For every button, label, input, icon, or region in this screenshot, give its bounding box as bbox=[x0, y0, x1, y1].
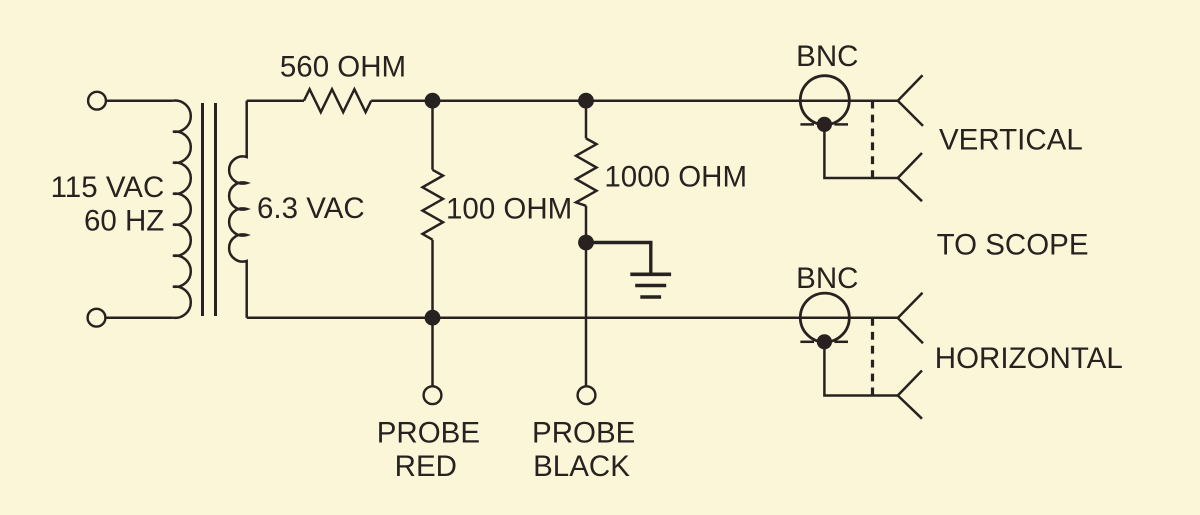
terminal circle primary top bbox=[88, 92, 106, 110]
wire BNC J2 shield drop bbox=[824, 342, 897, 396]
BNC J2 shield tick right bbox=[834, 341, 848, 344]
transformer core line right bbox=[214, 103, 217, 316]
wire 1000 ohm top lead bbox=[585, 101, 588, 139]
terminal circle primary bottom bbox=[88, 309, 106, 327]
ground symbol bbox=[630, 274, 671, 297]
connector V center J1 bbox=[898, 75, 923, 126]
BNC J2 center pin dot bbox=[817, 334, 832, 349]
svg-text:115 VAC: 115 VAC bbox=[51, 171, 165, 204]
svg-text:60 HZ: 60 HZ bbox=[84, 204, 164, 237]
svg-text:6.3 VAC: 6.3 VAC bbox=[257, 192, 365, 225]
connector V shield J1 bbox=[898, 153, 922, 201]
svg-text:RED: RED bbox=[395, 450, 457, 483]
svg-text:BNC: BNC bbox=[796, 40, 858, 73]
BNC J1 shield tick left bbox=[800, 123, 814, 126]
svg-text:PROBE: PROBE bbox=[377, 416, 480, 449]
dashed coax line J1 bbox=[871, 101, 874, 178]
BNC J1 connector circle bbox=[800, 76, 849, 125]
transformer core line left bbox=[201, 103, 204, 316]
svg-text:560 OHM: 560 OHM bbox=[280, 50, 406, 83]
BNC J1 shield tick right bbox=[834, 123, 848, 126]
wire 100 ohm bottom lead to probe red bbox=[431, 240, 434, 386]
svg-text:HORIZONTAL: HORIZONTAL bbox=[935, 342, 1123, 375]
svg-text:BLACK: BLACK bbox=[533, 450, 630, 483]
wire top rail right segment bbox=[371, 99, 898, 102]
transformer T1 secondary winding bbox=[229, 101, 247, 318]
svg-text:TO SCOPE: TO SCOPE bbox=[937, 229, 1089, 262]
wire primary top lead bbox=[107, 99, 173, 102]
BNC J1 center pin dot bbox=[817, 117, 832, 132]
BNC J2 shield tick left bbox=[800, 341, 814, 344]
probe red terminal circle bbox=[424, 386, 442, 404]
junction node bottom rail / probe red bbox=[425, 310, 441, 326]
wire 100 ohm top lead bbox=[431, 101, 434, 170]
transformer T1 primary winding bbox=[173, 101, 191, 318]
junction node top rail / R3 bbox=[578, 93, 594, 109]
svg-text:PROBE: PROBE bbox=[532, 416, 635, 449]
junction node top rail / R2 bbox=[425, 93, 441, 109]
wire primary bottom lead bbox=[106, 316, 173, 319]
wire bottom rail bbox=[247, 316, 898, 319]
dashed coax line J2 bbox=[871, 318, 874, 396]
wire ground stub bbox=[586, 243, 651, 275]
svg-text:100 OHM: 100 OHM bbox=[446, 192, 572, 225]
probe black terminal circle bbox=[578, 386, 596, 404]
connector V center J2 bbox=[898, 293, 923, 344]
junction node ground / R3 bbox=[578, 235, 594, 251]
wire 1000 ohm bottom lead to probe black bbox=[585, 206, 588, 386]
BNC J2 connector circle bbox=[800, 293, 849, 342]
svg-text:VERTICAL: VERTICAL bbox=[939, 123, 1083, 156]
svg-text:1000 OHM: 1000 OHM bbox=[604, 161, 747, 194]
connector V shield J2 bbox=[898, 371, 922, 419]
resistor R3 1000 OHM bbox=[576, 138, 597, 205]
wire BNC J1 shield drop bbox=[824, 124, 897, 178]
resistor R2 100 OHM bbox=[423, 170, 444, 240]
svg-text:BNC: BNC bbox=[796, 262, 858, 295]
resistor R1 560 OHM bbox=[304, 89, 371, 112]
wire top rail left segment bbox=[247, 99, 304, 102]
